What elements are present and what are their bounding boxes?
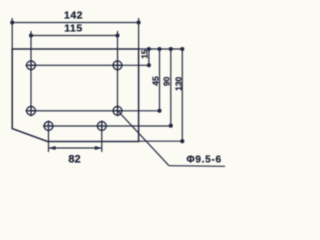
arrowheads of 82 dimension bbox=[49, 146, 102, 150]
extension line left for 115 bbox=[30, 31, 32, 65]
dimension line 82 bbox=[49, 147, 102, 149]
svg-text:15: 15 bbox=[140, 49, 149, 58]
svg-text:115: 115 bbox=[64, 22, 82, 34]
wire: center line through bottom holes bbox=[43, 125, 171, 127]
svg-text:Φ9.5-6: Φ9.5-6 bbox=[187, 154, 222, 165]
wire: bottom edge extension to 130-line bbox=[139, 140, 183, 142]
wire: top edge extension to right dim lines bbox=[139, 48, 183, 50]
svg-text:90: 90 bbox=[162, 76, 172, 86]
hole H2 top-right bbox=[112, 60, 123, 71]
hole H3 mid-left bbox=[26, 105, 37, 116]
hole H4 mid-right bbox=[112, 105, 123, 116]
hole H6 bottom-right bbox=[96, 121, 107, 132]
wire: extension right from hole H2 to 15-line bbox=[118, 64, 149, 66]
plate outline bbox=[12, 49, 138, 142]
extension line right for 142 bbox=[138, 18, 140, 49]
leader line from hole H4 bbox=[118, 111, 170, 166]
wire: extension right from hole H4 to 45-line bbox=[118, 110, 160, 112]
dimension line 142 bbox=[12, 22, 138, 24]
svg-text:45: 45 bbox=[150, 76, 160, 86]
extension line below hole H5 for 82 bbox=[48, 130, 50, 152]
vertical dim line 130 bbox=[181, 49, 183, 141]
hole H5 bottom-left bbox=[43, 121, 54, 132]
vertical dim line 15 bbox=[148, 49, 150, 65]
svg-text:142: 142 bbox=[64, 10, 83, 22]
extension line left for 142 bbox=[11, 18, 13, 49]
vertical dim line 45 bbox=[159, 49, 161, 111]
svg-text:130: 130 bbox=[173, 76, 183, 90]
extension line below hole H6 for 82 bbox=[101, 130, 103, 152]
bolt-pattern rectangle (through hole centers) bbox=[31, 65, 118, 111]
svg-text:82: 82 bbox=[68, 154, 80, 166]
hole H1 top-left bbox=[26, 60, 37, 71]
leader underline at label bbox=[169, 165, 225, 168]
extension line right for 115 bbox=[117, 31, 119, 65]
dimension line 115 bbox=[31, 35, 118, 37]
dimension end dots bbox=[10, 20, 184, 143]
vertical dim line 90 bbox=[170, 49, 172, 126]
